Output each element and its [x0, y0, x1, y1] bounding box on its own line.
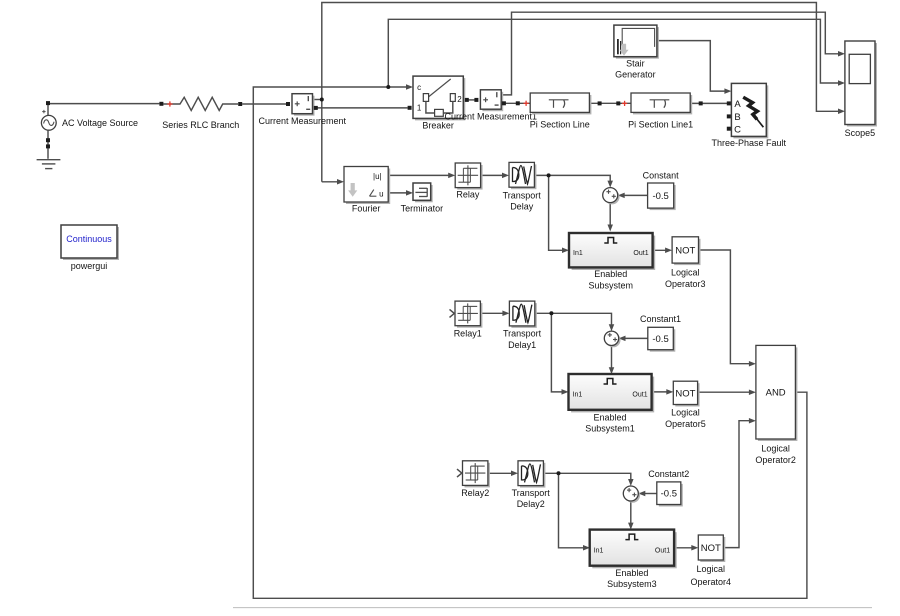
svg-text:Three-Phase Fault: Three-Phase Fault [712, 138, 787, 148]
svg-text:Subsystem: Subsystem [589, 280, 634, 290]
svg-text:Enabled: Enabled [594, 269, 627, 279]
svg-text:Delay: Delay [510, 202, 534, 212]
svg-text:-0.5: -0.5 [652, 191, 668, 202]
svg-text:AND: AND [766, 388, 786, 399]
svg-text:Enabled: Enabled [594, 412, 627, 422]
svg-text:u: u [379, 189, 383, 198]
svg-text:Subsystem1: Subsystem1 [585, 424, 635, 434]
svg-text:|u|: |u| [373, 172, 382, 181]
svg-text:Fourier: Fourier [352, 203, 381, 213]
svg-text:Relay2: Relay2 [461, 488, 489, 498]
svg-text:Constant: Constant [643, 170, 680, 180]
svg-text:Operator2: Operator2 [755, 455, 796, 465]
svg-text:B: B [734, 112, 740, 123]
svg-text:NOT: NOT [675, 388, 695, 399]
svg-text:Constant2: Constant2 [648, 469, 689, 479]
svg-text:2: 2 [457, 95, 462, 104]
svg-text:Relay: Relay [456, 190, 480, 200]
svg-text:Logical: Logical [697, 564, 726, 574]
svg-text:-0.5: -0.5 [652, 334, 668, 345]
svg-text:Logical: Logical [761, 443, 790, 453]
svg-text:C: C [734, 124, 741, 135]
svg-text:Logical: Logical [671, 268, 700, 278]
svg-text:Pi Section Line1: Pi Section Line1 [628, 120, 693, 130]
svg-text:Pi Section Line: Pi Section Line [530, 120, 590, 130]
svg-text:In1: In1 [594, 547, 604, 554]
svg-text:Operator5: Operator5 [665, 419, 706, 429]
svg-text:NOT: NOT [675, 245, 695, 256]
svg-text:Constant1: Constant1 [640, 314, 681, 324]
svg-text:1: 1 [417, 104, 422, 113]
svg-text:In1: In1 [573, 392, 583, 399]
svg-text:Stair: Stair [626, 59, 645, 69]
svg-text:Current Measurement: Current Measurement [259, 116, 347, 126]
svg-text:In1: In1 [573, 250, 583, 257]
svg-text:Relay1: Relay1 [454, 329, 482, 339]
svg-text:Breaker: Breaker [422, 121, 454, 131]
svg-text:Subsystem3: Subsystem3 [607, 579, 657, 589]
svg-text:NOT: NOT [701, 543, 721, 554]
svg-text:Generator: Generator [615, 70, 656, 80]
svg-text:Delay2: Delay2 [517, 499, 545, 509]
svg-text:Transport: Transport [512, 488, 551, 498]
svg-text:Operator3: Operator3 [665, 279, 706, 289]
svg-text:Logical: Logical [671, 408, 700, 418]
svg-text:AC Voltage Source: AC Voltage Source [62, 118, 138, 128]
svg-text:Enabled: Enabled [615, 568, 648, 578]
svg-text:c: c [417, 83, 421, 92]
svg-text:Transport: Transport [503, 329, 542, 339]
svg-text:Delay1: Delay1 [508, 340, 536, 350]
svg-text:Operator4: Operator4 [691, 577, 732, 587]
svg-text:Out1: Out1 [632, 392, 647, 399]
svg-text:-0.5: -0.5 [661, 489, 677, 500]
svg-text:Current Measurement1: Current Measurement1 [445, 112, 538, 122]
svg-text:Out1: Out1 [655, 547, 670, 554]
svg-text:Scope5: Scope5 [845, 128, 876, 138]
svg-text:Terminator: Terminator [401, 203, 444, 213]
svg-text:powergui: powergui [71, 261, 108, 271]
svg-text:Transport: Transport [503, 191, 542, 201]
svg-text:A: A [734, 99, 741, 110]
svg-text:Series RLC Branch: Series RLC Branch [162, 120, 239, 130]
svg-text:Out1: Out1 [633, 250, 648, 257]
svg-text:Continuous: Continuous [66, 234, 112, 244]
